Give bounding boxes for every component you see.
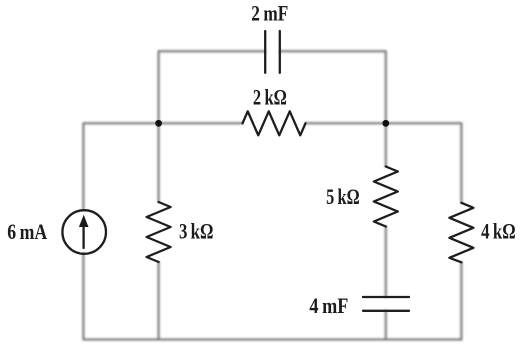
node B dot [382,120,389,127]
wire top-left vertical (node A to top rail) [158,51,160,123]
wire left branch lower [82,254,84,340]
wire top rail left of capacitor [159,50,266,52]
svg-text:4 kΩ: 4 kΩ [481,219,516,244]
wire 5k branch upper [385,123,387,166]
wire 3k branch lower [158,262,160,340]
resistor R2 3k zigzag [147,202,171,262]
wire top rail right of capacitor [280,50,386,52]
current source I1 circle [62,210,106,254]
wire top-right vertical (top rail to node B) [385,51,387,123]
wire bottom rail [83,339,461,341]
wire 4k branch upper [460,123,462,203]
svg-text:3 kΩ: 3 kΩ [179,219,214,244]
resistor R4 4k zigzag [449,203,473,262]
wire 4mF branch lower [385,311,387,340]
capacitor C2 4mF plates [363,296,409,298]
svg-text:6 mA: 6 mA [7,219,47,244]
current source arrow [82,226,84,248]
wire middle rail right segment [306,122,462,124]
svg-text:2 kΩ: 2 kΩ [253,84,287,109]
resistor R3 5k zigzag [374,167,398,227]
svg-text:5 kΩ: 5 kΩ [326,184,360,209]
capacitor C1 2mF plates [264,31,266,73]
wire 5k to 4mF [385,227,387,298]
wire middle rail left segment [83,122,242,124]
resistor R1 2k zigzag [243,111,306,135]
svg-text:2 mF: 2 mF [251,1,288,26]
wire 4k branch lower [460,262,462,339]
wire 3k branch upper [158,123,160,202]
node A dot [155,120,162,127]
svg-text:4 mF: 4 mF [309,293,348,318]
wire left branch upper [82,123,84,210]
